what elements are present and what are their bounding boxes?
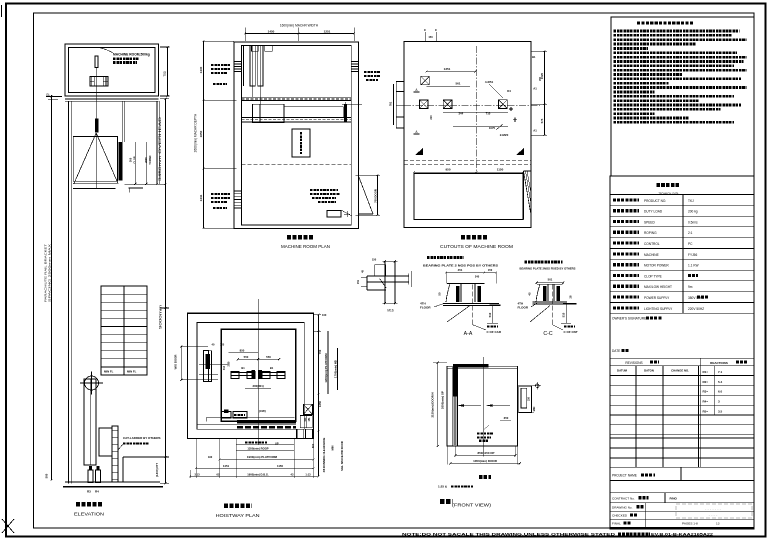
svg-text:CONTROL: CONTROL bbox=[644, 242, 660, 246]
svg-text:2:1: 2:1 bbox=[688, 231, 693, 235]
svg-text:761: 761 bbox=[389, 101, 393, 106]
svg-text:1.1 KW: 1.1 KW bbox=[688, 264, 698, 268]
svg-text:1200(min) PLATFORM: 1200(min) PLATFORM bbox=[324, 353, 328, 383]
svg-text:FYJ56: FYJ56 bbox=[688, 253, 697, 257]
svg-text:100: 100 bbox=[322, 313, 327, 317]
svg-text:A1: A1 bbox=[533, 87, 537, 91]
svg-text:850/1150 OP: 850/1150 OP bbox=[478, 451, 495, 455]
svg-text:B1: B1 bbox=[241, 366, 245, 370]
svg-text:MIN: MIN bbox=[331, 446, 335, 451]
svg-text:210: 210 bbox=[429, 115, 433, 120]
svg-text:500: 500 bbox=[45, 473, 49, 478]
svg-text:SPEED: SPEED bbox=[644, 220, 656, 224]
svg-text:1351: 1351 bbox=[444, 67, 451, 71]
svg-text:LIGHTING SUPPLY: LIGHTING SUPPLY bbox=[644, 307, 673, 311]
svg-text:3450mm OVERHEAD: 3450mm OVERHEAD bbox=[158, 116, 162, 181]
svg-text:50: 50 bbox=[438, 292, 442, 296]
svg-text:BEARING PLATE 2NOS FIXED BY OT: BEARING PLATE 2NOS FIXED BY OTHERS bbox=[520, 267, 576, 271]
svg-text:150: 150 bbox=[428, 35, 433, 39]
svg-text:550: 550 bbox=[244, 355, 249, 359]
svg-text:190: 190 bbox=[208, 455, 213, 459]
svg-text:575: 575 bbox=[540, 118, 544, 123]
svg-text:R4=: R4= bbox=[703, 400, 709, 404]
svg-text:CLOP: CLOP bbox=[132, 156, 136, 163]
svg-text:CAT-LADDER BY OTHERS: CAT-LADDER BY OTHERS bbox=[123, 436, 161, 440]
svg-text:CLOP TYPE: CLOP TYPE bbox=[644, 274, 662, 278]
svg-text:2/50: 2/50 bbox=[228, 361, 231, 366]
svg-text:316: 316 bbox=[223, 365, 226, 370]
svg-text:R4: R4 bbox=[95, 490, 99, 494]
svg-text:PRODUCT NO.: PRODUCT NO. bbox=[644, 199, 666, 203]
svg-text:411: 411 bbox=[304, 417, 307, 422]
svg-text:C OF CNT: C OF CNT bbox=[564, 330, 578, 334]
svg-text:2-M20: 2-M20 bbox=[500, 133, 509, 137]
svg-text:561: 561 bbox=[455, 82, 460, 86]
svg-text:4-Ø51: 4-Ø51 bbox=[485, 80, 494, 84]
svg-text:1900(min) D.B.G.: 1900(min) D.B.G. bbox=[247, 472, 269, 476]
svg-text:CHANGE NO.: CHANGE NO. bbox=[671, 369, 689, 373]
svg-text:150: 150 bbox=[488, 268, 493, 272]
svg-text:FINAL: FINAL bbox=[612, 522, 621, 526]
svg-text:D4: D4 bbox=[507, 89, 511, 93]
svg-text:R1=: R1= bbox=[703, 370, 709, 374]
svg-text:9000mm: 9000mm bbox=[159, 304, 163, 329]
svg-text:1650: 1650 bbox=[199, 130, 203, 137]
svg-text:1150: 1150 bbox=[497, 168, 504, 172]
svg-text:DRAWING No.: DRAWING No. bbox=[612, 505, 633, 509]
svg-text:MIN: MIN bbox=[533, 407, 536, 412]
svg-text:A-A: A-A bbox=[464, 331, 473, 337]
svg-text:REACTIONS: REACTIONS bbox=[710, 361, 728, 365]
svg-text:13: 13 bbox=[716, 522, 720, 526]
svg-text:1451: 1451 bbox=[223, 464, 230, 468]
svg-text:ELEVATION: ELEVATION bbox=[74, 512, 104, 517]
svg-text:B1: B1 bbox=[532, 55, 536, 59]
svg-text:PAGES 1-8: PAGES 1-8 bbox=[682, 522, 698, 526]
svg-text:151: 151 bbox=[357, 279, 360, 284]
svg-text:REVISIONS: REVISIONS bbox=[625, 361, 642, 365]
svg-text:510: 510 bbox=[488, 312, 492, 317]
svg-text:R2=: R2= bbox=[703, 380, 709, 384]
svg-text:DATE: DATE bbox=[612, 349, 620, 353]
svg-text:2550: 2550 bbox=[144, 157, 148, 163]
svg-text:MIN FL: MIN FL bbox=[104, 370, 114, 374]
svg-text:150: 150 bbox=[539, 76, 542, 81]
svg-text:700 DOOR: 700 DOOR bbox=[374, 189, 378, 203]
svg-text:ROPING: ROPING bbox=[644, 231, 657, 235]
svg-text:FLOOR: FLOOR bbox=[518, 306, 529, 310]
svg-text:MAX/LOW HEIGHT: MAX/LOW HEIGHT bbox=[644, 285, 672, 289]
svg-text:350: 350 bbox=[504, 416, 509, 420]
svg-text:C OF CAR: C OF CAR bbox=[487, 330, 502, 334]
svg-text:750: 750 bbox=[163, 71, 167, 77]
svg-text:850: 850 bbox=[240, 348, 245, 352]
svg-text:CONTRACT No.: CONTRACT No. bbox=[612, 496, 635, 500]
svg-text:150: 150 bbox=[528, 396, 531, 401]
svg-text:TOP/BF: TOP/BF bbox=[148, 155, 152, 165]
svg-text:305: 305 bbox=[129, 157, 133, 162]
svg-text:OWNER'S SIGNATURE: OWNER'S SIGNATURE bbox=[612, 317, 646, 321]
svg-text:(1400) PIT: (1400) PIT bbox=[155, 463, 159, 477]
svg-text:1450: 1450 bbox=[268, 30, 275, 34]
svg-text:750: 750 bbox=[318, 349, 322, 354]
svg-text:MACHINE ROOM,500kg: MACHINE ROOM,500kg bbox=[113, 53, 150, 57]
svg-text:300(301): 300(301) bbox=[252, 384, 263, 388]
svg-text:1:25 &: 1:25 & bbox=[438, 485, 448, 489]
svg-text:1430: 1430 bbox=[199, 66, 203, 73]
svg-text:2150(min) DOOR H: 2150(min) DOOR H bbox=[431, 392, 435, 417]
svg-text:PC: PC bbox=[688, 242, 693, 246]
svg-text:0.5m/s: 0.5m/s bbox=[688, 220, 698, 224]
svg-text:R3=: R3= bbox=[703, 390, 709, 394]
svg-text:1900(min) PLATFORM: 1900(min) PLATFORM bbox=[247, 455, 278, 459]
svg-text:W/O DOOR: W/O DOOR bbox=[174, 355, 178, 370]
svg-text:3/8 RUNNING CLEARANCE: 3/8 RUNNING CLEARANCE bbox=[322, 437, 326, 472]
svg-text:7.1: 7.1 bbox=[718, 370, 723, 374]
svg-text:45: 45 bbox=[528, 292, 532, 296]
svg-text:TKJ: TKJ bbox=[688, 199, 694, 203]
svg-text:510: 510 bbox=[562, 312, 566, 317]
svg-text:451: 451 bbox=[458, 268, 463, 272]
svg-text:DATON: DATON bbox=[644, 369, 654, 373]
svg-text:600: 600 bbox=[311, 443, 315, 448]
svg-text:5.4: 5.4 bbox=[718, 380, 723, 384]
svg-text:9m: 9m bbox=[688, 285, 693, 289]
svg-text:- - - -: - - - - bbox=[709, 512, 718, 517]
svg-text:MACHINE: MACHINE bbox=[644, 253, 659, 257]
svg-text:220V 50HZ: 220V 50HZ bbox=[688, 307, 704, 311]
svg-text:1:13: 1:13 bbox=[305, 472, 311, 476]
svg-text:- - - - - - -: - - - - - - - bbox=[705, 506, 722, 511]
svg-text:1251: 1251 bbox=[324, 30, 331, 34]
svg-text:POWER SUPPLY: POWER SUPPLY bbox=[644, 296, 670, 300]
svg-text:2000(min) OP: 2000(min) OP bbox=[441, 391, 445, 409]
svg-text:UP: UP bbox=[275, 441, 279, 445]
svg-text:CHECKED: CHECKED bbox=[612, 514, 628, 518]
svg-text:HOISTWAY PLAN: HOISTWAY PLAN bbox=[216, 513, 260, 518]
svg-text:1700(min) HD: 1700(min) HD bbox=[334, 360, 338, 378]
svg-text:CUTOUTS OF MACHINE ROOM: CUTOUTS OF MACHINE ROOM bbox=[440, 244, 514, 249]
svg-text:NOTE:DO NOT SACALE THIS DRAWIN: NOTE:DO NOT SACALE THIS DRAWING,UNLESS O… bbox=[402, 532, 615, 537]
svg-text:(FRONT VIEW): (FRONT VIEW) bbox=[452, 503, 492, 508]
svg-text:MOTOR POWER: MOTOR POWER bbox=[644, 264, 669, 268]
svg-text:DUTY LOAD: DUTY LOAD bbox=[644, 210, 663, 214]
svg-text:EV.B.01-B-KAA2165A22: EV.B.01-B-KAA2165A22 bbox=[651, 532, 714, 537]
svg-text:A1: A1 bbox=[533, 129, 537, 133]
svg-text:6.0: 6.0 bbox=[718, 390, 723, 394]
svg-text:BEARING PLATE 2 NOS POS BY OTH: BEARING PLATE 2 NOS POS BY OTHERS bbox=[423, 264, 498, 268]
svg-text:240: 240 bbox=[475, 275, 480, 279]
svg-text:550: 550 bbox=[266, 355, 271, 359]
svg-text:MACHINE ROOM PLAN: MACHINE ROOM PLAN bbox=[281, 244, 330, 249]
svg-text:125: 125 bbox=[220, 343, 225, 347]
svg-text:B1: B1 bbox=[270, 366, 274, 370]
svg-text:SILL SPACE P/R DOOR: SILL SPACE P/R DOOR bbox=[340, 441, 344, 471]
svg-text:1441: 1441 bbox=[199, 194, 203, 201]
svg-text:150: 150 bbox=[372, 257, 377, 261]
svg-text:TECHNICAL DATA: TECHNICAL DATA bbox=[659, 192, 680, 196]
svg-text:1150: 1150 bbox=[277, 464, 284, 468]
svg-text:R3: R3 bbox=[87, 490, 91, 494]
svg-text:1350: 1350 bbox=[318, 400, 322, 407]
svg-text:R5=: R5= bbox=[703, 409, 709, 413]
svg-text:M16: M16 bbox=[387, 309, 393, 313]
svg-text:3.13: 3.13 bbox=[194, 472, 200, 476]
svg-text:1350(min) ROOP: 1350(min) ROOP bbox=[247, 446, 268, 450]
svg-text:C-C: C-C bbox=[543, 331, 552, 337]
svg-text:2600(min) MACHR DEPTH: 2600(min) MACHR DEPTH bbox=[194, 113, 198, 152]
svg-text:1600(min) MACHR WIDTH: 1600(min) MACHR WIDTH bbox=[280, 24, 319, 28]
svg-text:FLOOR: FLOOR bbox=[420, 306, 431, 310]
svg-text:PROJECT NAME: PROJECT NAME bbox=[612, 474, 637, 478]
svg-text:501: 501 bbox=[548, 278, 553, 282]
svg-text:950: 950 bbox=[445, 168, 450, 172]
svg-text:(CW): (CW) bbox=[259, 409, 266, 413]
svg-text:DATUM: DATUM bbox=[617, 369, 628, 373]
svg-text:P/NO: P/NO bbox=[670, 496, 678, 500]
svg-text:151: 151 bbox=[308, 417, 311, 422]
svg-text:3.5: 3.5 bbox=[718, 409, 723, 413]
svg-text:200 kg: 200 kg bbox=[688, 210, 698, 214]
svg-text:MIN FL: MIN FL bbox=[127, 370, 137, 374]
svg-text:SPACING 2500mm MAX: SPACING 2500mm MAX bbox=[48, 244, 52, 302]
svg-text:1350(min) DOOR: 1350(min) DOOR bbox=[473, 459, 498, 463]
